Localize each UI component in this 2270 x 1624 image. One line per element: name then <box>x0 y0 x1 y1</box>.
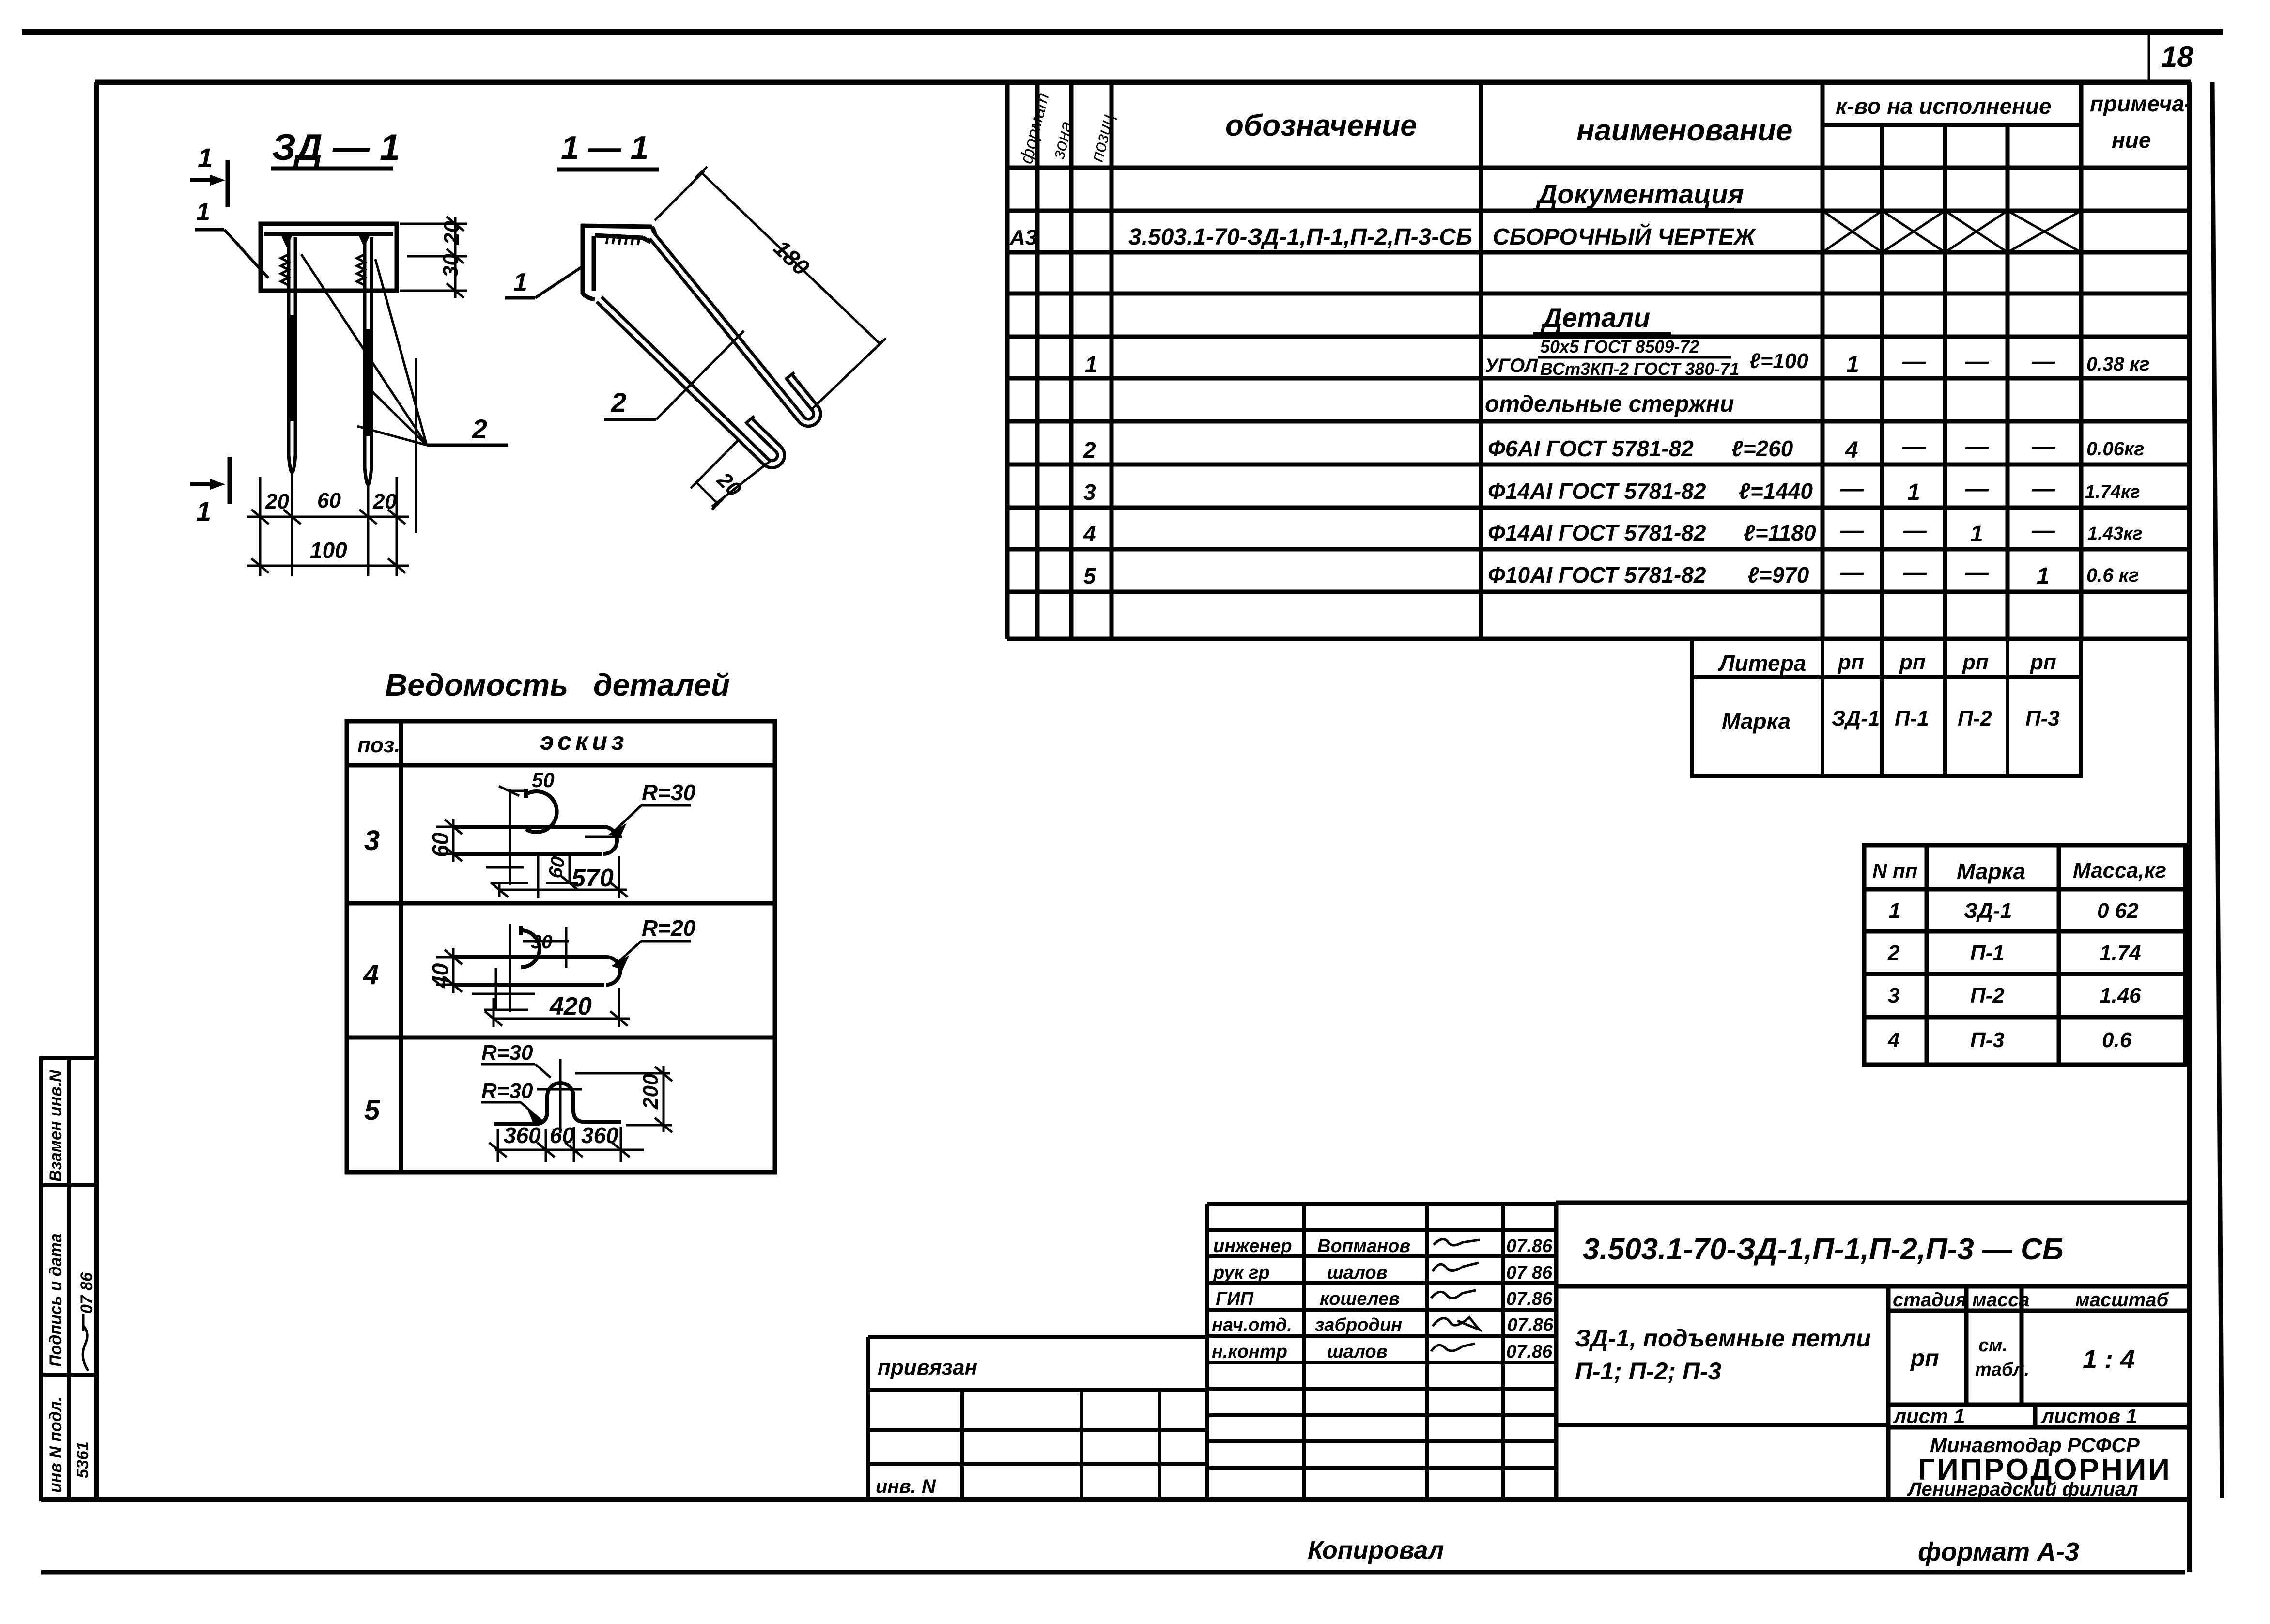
svg-text:20: 20 <box>372 490 397 513</box>
svg-text:инженер: инженер <box>1213 1236 1292 1256</box>
crosses in qty cells <box>1822 211 2081 252</box>
svg-text:Вопманов: Вопманов <box>1317 1236 1410 1256</box>
svg-text:инв N подл.: инв N подл. <box>46 1397 65 1493</box>
svg-text:07.86: 07.86 <box>1506 1236 1553 1256</box>
svg-text:рп: рп <box>2030 650 2056 674</box>
svg-text:кошелев: кошелев <box>1320 1289 1400 1309</box>
sketch poz4 dims <box>436 924 691 1027</box>
svg-text:П-1: П-1 <box>1970 941 2005 965</box>
svg-text:стадия: стадия <box>1893 1289 1967 1311</box>
svg-text:А3: А3 <box>1009 226 1037 249</box>
svg-text:масса: масса <box>1972 1289 2030 1311</box>
svg-text:60: 60 <box>550 1123 575 1148</box>
svg-text:ГИП: ГИП <box>1216 1289 1254 1309</box>
sketch poz5 bar <box>494 1083 621 1124</box>
svg-text:—: — <box>2031 518 2055 543</box>
svg-text:П-3: П-3 <box>2025 707 2060 730</box>
svg-text:нач.отд.: нач.отд. <box>1212 1315 1292 1335</box>
sketch poz3 bar <box>453 789 617 854</box>
svg-text:ℓ=100: ℓ=100 <box>1749 349 1808 373</box>
svg-text:200: 200 <box>639 1073 663 1110</box>
svg-text:4: 4 <box>363 959 379 990</box>
svg-text:1.74кг: 1.74кг <box>2085 482 2140 502</box>
svg-text:3.503.1-70-ЗД-1,П-1,П-2,П-3-СБ: 3.503.1-70-ЗД-1,П-1,П-2,П-3-СБ <box>1128 224 1472 250</box>
svg-text:деталей: деталей <box>593 667 730 702</box>
svg-text:П-2: П-2 <box>1970 984 2005 1007</box>
svg-text:07.86: 07.86 <box>1506 1289 1553 1309</box>
svg-text:ℓ=260: ℓ=260 <box>1731 436 1793 461</box>
svg-text:рп: рп <box>1838 650 1864 674</box>
svg-text:лист 1: лист 1 <box>1893 1405 1965 1427</box>
svg-text:П-1: П-1 <box>1895 707 1929 730</box>
svg-text:Масса,кг: Масса,кг <box>2073 859 2166 882</box>
svg-text:н.контр: н.контр <box>1212 1342 1287 1362</box>
ZD-1 right rod <box>365 237 371 484</box>
svg-text:60: 60 <box>544 855 569 880</box>
svg-text:Ф10АI ГОСТ 5781-82: Ф10АI ГОСТ 5781-82 <box>1488 562 1706 588</box>
svg-text:2: 2 <box>1083 437 1096 463</box>
inner frame bottom <box>41 1497 2191 1502</box>
svg-text:ЗД-1: ЗД-1 <box>1832 707 1880 730</box>
svg-text:Копировал: Копировал <box>1308 1536 1444 1564</box>
svg-text:420: 420 <box>549 992 592 1021</box>
1-1 angle plate <box>581 224 655 299</box>
svg-text:0.38 кг: 0.38 кг <box>2086 354 2150 375</box>
svg-text:2: 2 <box>1887 941 1900 965</box>
left stamp rotated labels <box>46 1069 92 1493</box>
svg-text:0 62: 0 62 <box>2097 899 2139 923</box>
svg-text:рп: рп <box>1899 650 1926 674</box>
svg-text:1.46: 1.46 <box>2100 984 2141 1007</box>
svg-text:Ленинградский филиал: Ленинградский филиал <box>1907 1479 2138 1500</box>
svg-text:ВСт3КП-2 ГОСТ 380-71: ВСт3КП-2 ГОСТ 380-71 <box>1540 359 1740 379</box>
svg-text:Взамен инв.N: Взамен инв.N <box>46 1069 65 1182</box>
svg-text:обозначение: обозначение <box>1225 109 1417 142</box>
svg-text:рп: рп <box>1962 650 1989 674</box>
svg-text:0.6 кг: 0.6 кг <box>2086 565 2139 586</box>
outer top border line <box>22 29 2223 35</box>
svg-text:40: 40 <box>428 963 453 989</box>
svg-text:П-2: П-2 <box>1958 707 1992 730</box>
ZD-1 plate <box>261 224 397 291</box>
1-1 weld hatch on flange <box>606 237 639 245</box>
svg-text:Подпись и дата: Подпись и дата <box>46 1233 65 1367</box>
svg-text:1: 1 <box>2037 563 2050 589</box>
sketch poz4 bar <box>453 926 620 985</box>
svg-text:R=30: R=30 <box>642 780 696 805</box>
svg-text:5: 5 <box>364 1095 380 1126</box>
svg-text:100: 100 <box>310 538 347 563</box>
title block designation cell <box>1556 1203 2189 1500</box>
inner frame top <box>95 80 2191 85</box>
svg-text:забродин: забродин <box>1315 1315 1402 1335</box>
svg-text:2: 2 <box>611 387 626 418</box>
svg-text:3: 3 <box>1888 984 1899 1007</box>
svg-text:30: 30 <box>439 254 463 278</box>
svg-text:—: — <box>2031 476 2055 502</box>
svg-text:эскиз: эскиз <box>540 727 628 756</box>
svg-text:4: 4 <box>1083 521 1096 546</box>
svg-text:07.86: 07.86 <box>1506 1342 1553 1362</box>
svg-text:Ф6АI ГОСТ 5781-82: Ф6АI ГОСТ 5781-82 <box>1488 436 1694 461</box>
svg-text:1: 1 <box>1846 352 1859 377</box>
svg-text:ℓ=970: ℓ=970 <box>1747 562 1809 588</box>
1-1 loop bar leg A <box>652 236 817 423</box>
svg-text:1.43кг: 1.43кг <box>2087 524 2143 544</box>
svg-text:1 : 4: 1 : 4 <box>2083 1345 2135 1374</box>
svg-text:3.503.1-70-ЗД-1,П-1,П-2,П-3 —: 3.503.1-70-ЗД-1,П-1,П-2,П-3 — СБ <box>1583 1233 2064 1266</box>
1-1 dim 180 <box>655 167 886 409</box>
sketch poz3 dims <box>436 786 691 898</box>
svg-text:07 86: 07 86 <box>77 1272 96 1314</box>
svg-text:ЗД-1, подъемные петли: ЗД-1, подъемные петли <box>1575 1325 1871 1352</box>
svg-text:4: 4 <box>1845 437 1858 463</box>
outer bottom border line <box>41 1570 2185 1575</box>
mass summary table lines <box>1864 845 2185 1065</box>
svg-text:20: 20 <box>265 490 289 513</box>
left stamp signature squiggle <box>83 1326 88 1371</box>
svg-text:наименование: наименование <box>1576 114 1792 147</box>
svg-text:П-1; П-2; П-3: П-1; П-2; П-3 <box>1575 1358 1722 1385</box>
svg-text:3: 3 <box>1083 479 1096 505</box>
svg-text:R=30: R=30 <box>481 1079 533 1103</box>
svg-text:1 — 1: 1 — 1 <box>561 129 649 166</box>
svg-text:—: — <box>1840 518 1864 543</box>
svg-text:5361: 5361 <box>74 1441 92 1478</box>
svg-text:—: — <box>1903 518 1927 543</box>
svg-text:—: — <box>1902 434 1926 460</box>
svg-text:4: 4 <box>1887 1028 1899 1052</box>
svg-text:18: 18 <box>2161 41 2193 73</box>
svg-text:1: 1 <box>1970 521 1983 547</box>
svg-text:—: — <box>1902 349 1926 374</box>
svg-text:1: 1 <box>198 142 213 173</box>
svg-text:инв. N: инв. N <box>876 1476 936 1497</box>
svg-text:ние: ние <box>2112 127 2151 153</box>
svg-text:—: — <box>1965 560 1989 586</box>
svg-text:R=20: R=20 <box>642 915 696 941</box>
svg-text:20: 20 <box>440 221 463 245</box>
svg-text:Ф14АI ГОСТ 5781-82: Ф14АI ГОСТ 5781-82 <box>1488 520 1706 545</box>
spec header rotated: формат зона позиц <box>1016 91 1118 166</box>
svg-text:Документация: Документация <box>1536 179 1744 209</box>
svg-text:R=30: R=30 <box>481 1041 533 1065</box>
sketch poz5 dims <box>481 1059 672 1162</box>
svg-text:360: 360 <box>581 1123 618 1148</box>
signatures squiggles <box>1431 1239 1480 1351</box>
svg-text:07 86: 07 86 <box>1506 1263 1553 1283</box>
svg-text:рп: рп <box>1910 1346 1939 1371</box>
signature table <box>1207 1204 1556 1500</box>
svg-text:см.: см. <box>1978 1335 2007 1356</box>
svg-text:шалов: шалов <box>1327 1342 1388 1362</box>
svg-text:—: — <box>1965 434 1989 460</box>
svg-text:60: 60 <box>428 832 453 857</box>
svg-text:1: 1 <box>196 198 210 226</box>
svg-text:СБОРОЧНЫЙ ЧЕРТЕЖ: СБОРОЧНЫЙ ЧЕРТЕЖ <box>1493 223 1757 250</box>
svg-text:ЗД — 1: ЗД — 1 <box>272 127 400 168</box>
svg-text:Марка: Марка <box>1957 859 2025 884</box>
svg-text:шалов: шалов <box>1327 1263 1388 1283</box>
svg-text:к-во на исполнение: к-во на исполнение <box>1836 93 2052 119</box>
svg-text:поз.: поз. <box>357 733 400 757</box>
page number tick <box>2148 32 2150 82</box>
ZD-1 weld zigzag right rod <box>357 254 365 285</box>
ZD-1 weld zigzag left rod <box>281 254 289 285</box>
litera table lines <box>1692 639 2081 776</box>
svg-text:отдельные стержни: отдельные стержни <box>1485 391 1734 417</box>
svg-text:3: 3 <box>364 825 380 856</box>
ZD-1 right dimension 20/30 <box>400 217 467 298</box>
ZD-1 section mark bottom <box>190 482 220 486</box>
svg-text:Детали: Детали <box>1541 302 1650 333</box>
svg-text:П-3: П-3 <box>1970 1028 2005 1052</box>
signature rows text <box>1212 1236 1554 1362</box>
svg-text:формат А-3: формат А-3 <box>1918 1537 2079 1566</box>
outer right border line <box>2212 82 2222 1498</box>
svg-text:1: 1 <box>513 268 527 296</box>
svg-text:—: — <box>2031 349 2055 374</box>
svg-text:табл.: табл. <box>1975 1360 2029 1380</box>
svg-text:N пп: N пп <box>1872 859 1917 882</box>
svg-text:50: 50 <box>532 769 555 791</box>
1-1 loop bar leg B <box>599 299 781 464</box>
svg-text:0.06кг: 0.06кг <box>2086 438 2144 460</box>
svg-text:1: 1 <box>1085 352 1097 377</box>
ZD-1 left rod <box>289 237 295 472</box>
specification table horizontals <box>1007 125 2189 639</box>
vedomost table lines <box>347 721 775 1172</box>
1-1 dim 20 <box>691 440 770 510</box>
privyazan block <box>868 1337 1207 1500</box>
svg-text:ЗД-1: ЗД-1 <box>1964 899 2012 923</box>
svg-text:—: — <box>1965 349 1989 374</box>
svg-text:Ведомость: Ведомость <box>385 667 568 702</box>
svg-text:примеча-: примеча- <box>2090 91 2192 116</box>
specification table verticals <box>1007 82 2081 639</box>
svg-text:60: 60 <box>317 489 341 512</box>
svg-text:—: — <box>2031 434 2055 460</box>
svg-text:30: 30 <box>531 931 553 953</box>
svg-text:рук гр: рук гр <box>1213 1263 1270 1283</box>
svg-text:ℓ=1180: ℓ=1180 <box>1744 520 1816 545</box>
svg-text:Ф14АI ГОСТ 5781-82: Ф14АI ГОСТ 5781-82 <box>1488 479 1706 504</box>
svg-text:ℓ=1440: ℓ=1440 <box>1739 479 1813 504</box>
ZD-1 weld triangles under flange <box>282 236 292 247</box>
inner frame left <box>94 82 99 1500</box>
left margin stamp table <box>41 1058 97 1500</box>
svg-text:Литера: Литера <box>1718 650 1806 676</box>
svg-text:07.86: 07.86 <box>1507 1315 1554 1335</box>
svg-text:масштаб: масштаб <box>2075 1289 2169 1311</box>
svg-text:2: 2 <box>472 414 487 444</box>
svg-text:1: 1 <box>1889 899 1900 923</box>
svg-text:1: 1 <box>196 496 211 526</box>
svg-text:УГОЛ: УГОЛ <box>1485 355 1539 376</box>
svg-text:360: 360 <box>504 1123 541 1148</box>
ZD-1 bottom dimensions <box>247 358 416 576</box>
svg-text:—: — <box>1840 560 1864 586</box>
svg-text:0.6: 0.6 <box>2102 1028 2132 1052</box>
svg-text:Марка: Марка <box>1722 709 1791 734</box>
svg-text:5: 5 <box>1083 563 1096 588</box>
svg-text:570: 570 <box>571 864 614 892</box>
svg-text:привязан: привязан <box>878 1356 977 1379</box>
inner frame right <box>2187 82 2192 1572</box>
svg-text:—: — <box>1840 476 1864 502</box>
svg-text:—: — <box>1903 560 1927 586</box>
svg-text:листов 1: листов 1 <box>2040 1405 2137 1427</box>
svg-text:—: — <box>1965 476 1989 502</box>
svg-text:1.74: 1.74 <box>2100 941 2141 965</box>
ZD-1 leaders 2 <box>301 254 427 445</box>
svg-text:50х5 ГОСТ 8509-72: 50х5 ГОСТ 8509-72 <box>1540 337 1699 356</box>
svg-text:1: 1 <box>1907 479 1920 505</box>
